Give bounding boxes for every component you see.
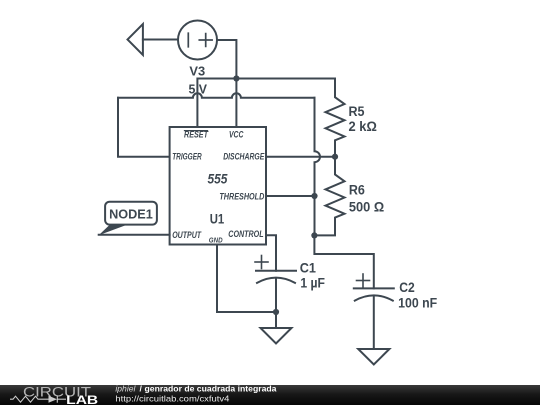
- svg-text:V3: V3: [189, 65, 205, 79]
- svg-text:NODE1: NODE1: [109, 207, 153, 222]
- wire top rail y78.5: [197, 79, 335, 128]
- svg-text:500 Ω: 500 Ω: [349, 200, 384, 215]
- ground symbol under C2: [358, 349, 389, 365]
- node junction dot GND/C1: [273, 309, 279, 315]
- svg-text:THRESHOLD: THRESHOLD: [219, 192, 264, 202]
- capacitor C1: [255, 256, 296, 313]
- wire flag to V3: [143, 39, 178, 41]
- wire second rail with hops over RESET and VCC wires: [118, 93, 315, 98]
- wire GND pin down: [217, 245, 276, 313]
- svg-text:DISCHARGE: DISCHARGE: [223, 152, 265, 162]
- svg-text:VCC: VCC: [229, 130, 244, 140]
- wire DISCHARGE to R5/R6 junction: [266, 156, 335, 158]
- ground symbol under C1: [261, 312, 292, 344]
- capacitor C2: [354, 274, 394, 349]
- svg-text:R6: R6: [349, 183, 365, 198]
- node label NODE1 callout: [99, 202, 170, 236]
- wire V3 to VCC rail: [217, 40, 236, 127]
- svg-text:R5: R5: [349, 104, 365, 119]
- svg-text:genrador de cuadrada integrada: genrador de cuadrada integrada: [145, 384, 277, 394]
- wire THRESHOLD to bus: [266, 195, 315, 197]
- node junction dot V3/VCC: [233, 75, 239, 81]
- svg-text:RESET: RESET: [184, 130, 209, 140]
- svg-text:U1: U1: [210, 210, 225, 226]
- svg-text:iphiel: iphiel: [115, 384, 136, 394]
- node junction dot THRESHOLD: [311, 193, 317, 199]
- RESET pin overline: [185, 130, 208, 132]
- wire to TRIGGER: [118, 98, 170, 157]
- voltage source V3: [178, 21, 217, 60]
- IC U1 555 timer body: [170, 127, 266, 245]
- svg-text:CONTROL: CONTROL: [228, 229, 263, 239]
- svg-text:2 kΩ: 2 kΩ: [349, 119, 378, 134]
- wire right bus with hop over discharge wire: [315, 98, 321, 236]
- node junction dot R6 bottom: [311, 232, 317, 238]
- svg-text:5 V: 5 V: [189, 82, 208, 96]
- svg-text:OUTPUT: OUTPUT: [172, 230, 202, 240]
- svg-text:LAB: LAB: [66, 395, 98, 405]
- svg-text:100 nF: 100 nF: [398, 295, 437, 310]
- resistor R6: [314, 157, 344, 236]
- svg-text:1 µF: 1 µF: [300, 275, 325, 290]
- svg-text:GND: GND: [209, 236, 223, 245]
- svg-text:C2: C2: [399, 280, 415, 295]
- CircuitLab logo resistor-diode squiggle: [10, 396, 66, 403]
- wire R6 bottom to C2: [314, 235, 373, 288]
- svg-text:http://circuitlab.com/cxfutv4: http://circuitlab.com/cxfutv4: [115, 393, 229, 403]
- wire CONTROL to C1: [266, 235, 276, 271]
- svg-text:TRIGGER: TRIGGER: [172, 152, 202, 162]
- net flag arrow at V3 negative terminal: [128, 24, 143, 55]
- node junction dot R5/R6/discharge: [332, 154, 338, 160]
- svg-text:C1: C1: [300, 261, 317, 276]
- resistor R5: [326, 79, 345, 157]
- svg-text:555: 555: [208, 171, 228, 187]
